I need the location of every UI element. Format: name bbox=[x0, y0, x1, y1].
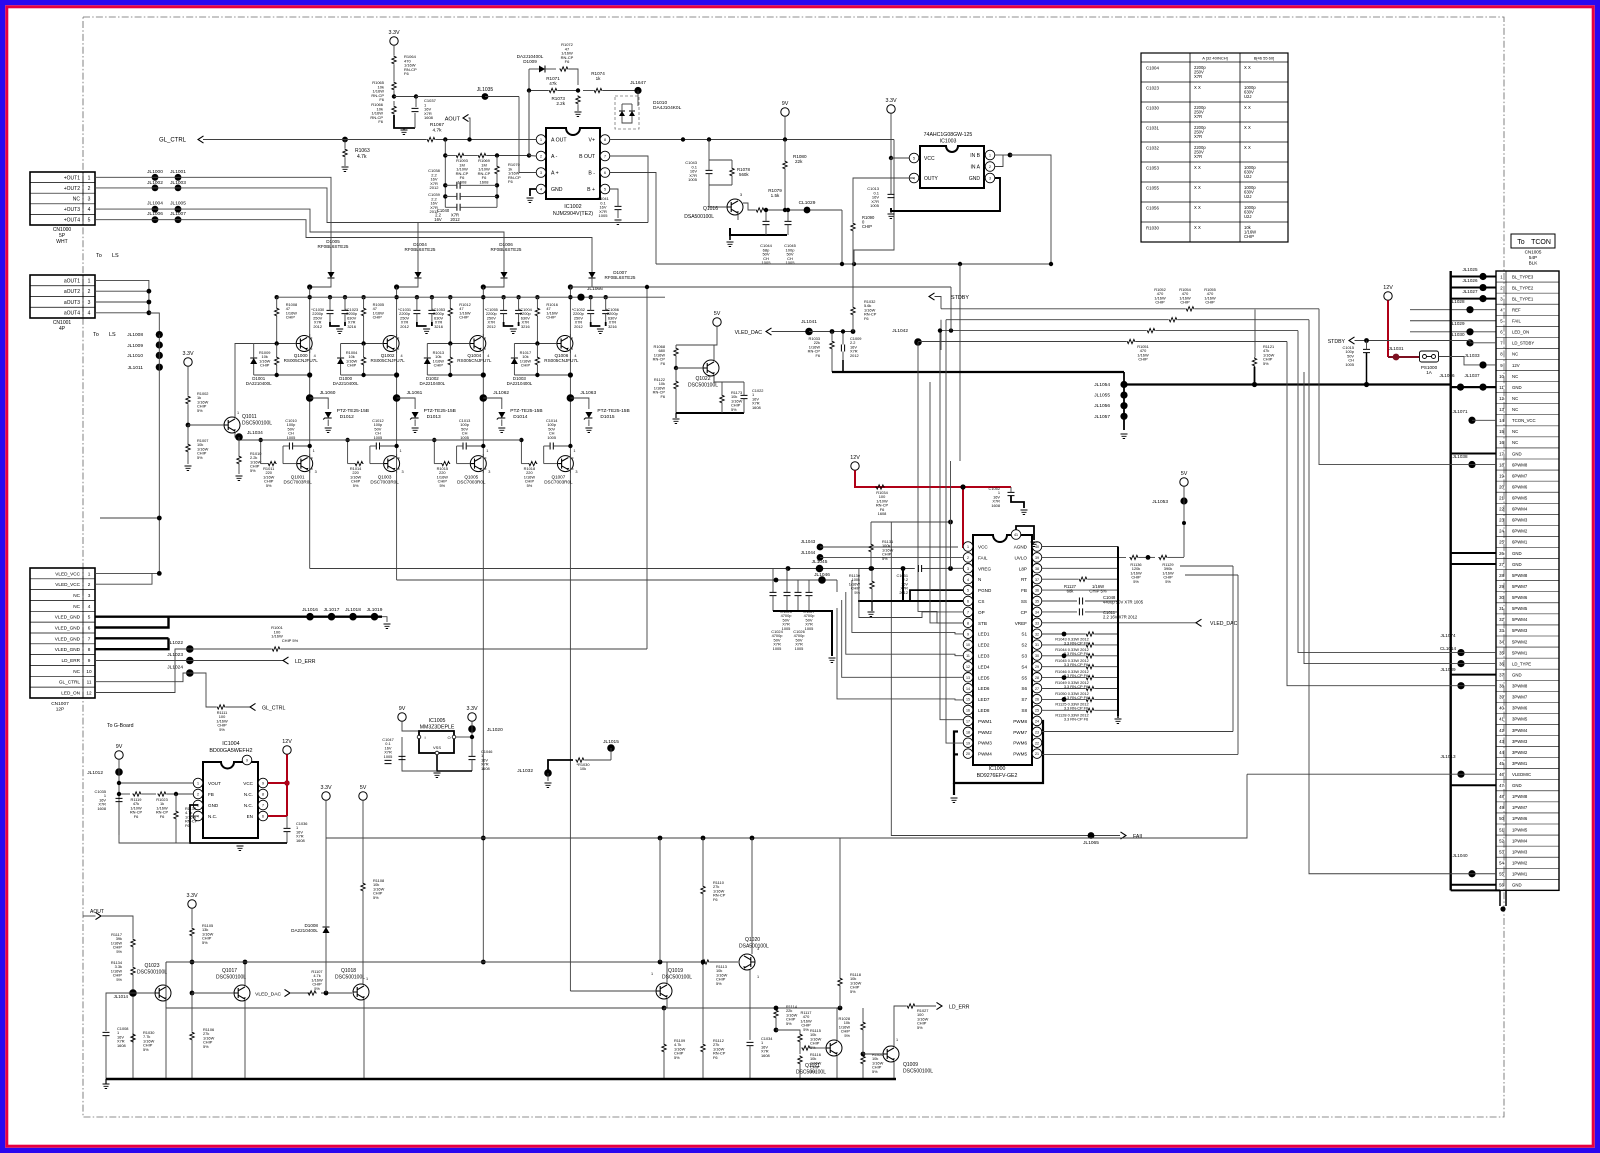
svg-text:IC1000: IC1000 bbox=[989, 766, 1006, 772]
svg-text:PWM2: PWM2 bbox=[978, 730, 992, 735]
svg-text:74AHC1G08GW-125: 74AHC1G08GW-125 bbox=[924, 132, 973, 138]
svg-text:22k: 22k bbox=[795, 159, 803, 164]
svg-text:36: 36 bbox=[1499, 661, 1504, 666]
wire PWM5 out bbox=[1042, 753, 1238, 755]
red wire 12V fuse bbox=[1387, 300, 1389, 357]
svg-text:6: 6 bbox=[262, 815, 264, 819]
svg-text:5%: 5% bbox=[116, 949, 122, 954]
svg-text:CHIP: CHIP bbox=[347, 363, 357, 368]
svg-text:Q1011: Q1011 bbox=[242, 414, 257, 420]
svg-text:+OUT2: +OUT2 bbox=[64, 186, 80, 192]
svg-text:6PWM7: 6PWM7 bbox=[1512, 473, 1528, 478]
ground loop IC1003 bbox=[891, 178, 1000, 211]
svg-text:2: 2 bbox=[989, 165, 991, 169]
resistor R1117 bbox=[131, 938, 135, 947]
svg-text:CHIP: CHIP bbox=[1180, 300, 1190, 305]
wire SS C1048 bbox=[1042, 600, 1077, 602]
wire JL1046 end bbox=[836, 580, 838, 592]
svg-text:VLED_GND: VLED_GND bbox=[55, 636, 81, 641]
wire L8P bbox=[1042, 567, 1118, 569]
svg-text:NC: NC bbox=[73, 604, 80, 609]
svg-text:GND: GND bbox=[1512, 451, 1522, 456]
wire Q1019 bbox=[659, 838, 661, 962]
svg-text:9: 9 bbox=[246, 759, 248, 763]
svg-text:O: O bbox=[447, 735, 450, 740]
svg-text:5%: 5% bbox=[197, 408, 203, 413]
resistor R1121 bbox=[1252, 357, 1256, 366]
capacitor C1043 bbox=[706, 170, 713, 173]
wire CN1000 pin2 bbox=[95, 188, 418, 268]
wire base bbox=[544, 463, 558, 465]
connector bus bar bbox=[1449, 271, 1451, 890]
resistor R1028 bbox=[861, 1021, 865, 1030]
wire 6PWM8 feeder bbox=[1319, 385, 1496, 465]
wire base bbox=[457, 463, 471, 465]
svg-text:AGND: AGND bbox=[1014, 545, 1028, 550]
svg-text:48: 48 bbox=[1499, 794, 1504, 799]
svg-text:FAIL: FAIL bbox=[1512, 319, 1521, 324]
svg-text:5PWM1: 5PWM1 bbox=[1512, 650, 1528, 655]
wire ch3 box to pin46 bbox=[483, 774, 1247, 838]
svg-text:PTZ-TE25-15B: PTZ-TE25-15B bbox=[510, 408, 542, 414]
svg-text:PTZ-TE25-15B: PTZ-TE25-15B bbox=[424, 408, 456, 414]
capacitor C1053 bbox=[428, 310, 435, 313]
svg-text:38: 38 bbox=[1499, 684, 1504, 689]
wire pair bottom bbox=[341, 374, 397, 376]
svg-text:DA2210400L: DA2210400L bbox=[246, 381, 272, 386]
svg-text:B OUT: B OUT bbox=[579, 154, 596, 160]
svg-text:F6: F6 bbox=[508, 179, 513, 184]
wire STDBY to pin7 bbox=[1388, 341, 1496, 343]
capacitor C1056 bbox=[602, 310, 609, 313]
resistor R1108 bbox=[361, 882, 365, 891]
resistor R1115 bbox=[798, 1033, 802, 1042]
svg-text:To: To bbox=[1517, 239, 1525, 246]
svg-text:NC: NC bbox=[1512, 374, 1518, 379]
svg-text:4: 4 bbox=[913, 177, 915, 181]
svg-text:1005: 1005 bbox=[795, 646, 804, 651]
svg-text:MM3Z3DEPLE: MM3Z3DEPLE bbox=[420, 725, 455, 731]
svg-text:40: 40 bbox=[1035, 545, 1039, 549]
resistor R1030b bbox=[575, 758, 584, 762]
svg-text:54P: 54P bbox=[1529, 255, 1537, 260]
svg-text:CHIP: CHIP bbox=[521, 363, 531, 368]
svg-text:F6: F6 bbox=[864, 316, 869, 321]
svg-text:NC: NC bbox=[1512, 396, 1518, 401]
wire STB vertical bbox=[930, 382, 963, 623]
svg-text:4: 4 bbox=[88, 604, 91, 609]
svg-text:12P: 12P bbox=[56, 707, 65, 713]
svg-text:4: 4 bbox=[574, 354, 576, 358]
svg-text:RS005CNJFU7L: RS005CNJFU7L bbox=[284, 358, 319, 363]
svg-text:7: 7 bbox=[604, 155, 606, 159]
svg-text:7: 7 bbox=[88, 636, 91, 641]
thick gnd bus bbox=[676, 412, 744, 414]
wire CN1000 pin4 bbox=[95, 209, 504, 268]
wire VLED_DAC to R1053 bbox=[831, 332, 833, 341]
svg-text:NC: NC bbox=[73, 669, 80, 674]
connector CN1000 bbox=[30, 172, 95, 225]
svg-text:20: 20 bbox=[966, 752, 970, 756]
svg-text:5%: 5% bbox=[731, 407, 737, 412]
svg-text:CP: CP bbox=[1021, 610, 1027, 615]
svg-text:L8P: L8P bbox=[1019, 566, 1027, 571]
svg-text:CHIP: CHIP bbox=[373, 315, 383, 320]
svg-text:FAIL: FAIL bbox=[1133, 834, 1144, 840]
svg-text:6PWM2: 6PWM2 bbox=[1512, 529, 1528, 534]
svg-text:VLED_DAC: VLED_DAC bbox=[735, 330, 763, 336]
wire base net bbox=[254, 343, 297, 345]
svg-text:JL1071: JL1071 bbox=[1452, 409, 1468, 414]
svg-text:OUTY: OUTY bbox=[924, 176, 939, 182]
svg-text:30: 30 bbox=[1499, 595, 1504, 600]
svg-text:LD_ERR: LD_ERR bbox=[62, 658, 81, 663]
svg-text:JL1006: JL1006 bbox=[147, 211, 163, 217]
svg-text:Q1017: Q1017 bbox=[222, 968, 237, 974]
svg-text:3: 3 bbox=[488, 470, 490, 474]
resistor R1008 bbox=[275, 307, 279, 316]
svg-text:23: 23 bbox=[1499, 518, 1504, 523]
svg-text:12V: 12V bbox=[282, 739, 292, 745]
svg-text:F6: F6 bbox=[378, 119, 383, 124]
svg-text:40: 40 bbox=[1499, 706, 1504, 711]
svg-text:PWM7: PWM7 bbox=[1013, 730, 1027, 735]
svg-text:BL_TYPE3: BL_TYPE3 bbox=[1512, 274, 1534, 279]
svg-text:PWM5: PWM5 bbox=[1013, 752, 1027, 757]
svg-text:LD_ERR: LD_ERR bbox=[295, 659, 316, 665]
svg-text:1PWM2: 1PWM2 bbox=[1512, 860, 1528, 865]
svg-text:LED7: LED7 bbox=[978, 697, 990, 702]
svg-text:10k: 10k bbox=[580, 766, 586, 771]
wire channel top bus bbox=[568, 295, 572, 299]
svg-text:JL1014: JL1014 bbox=[114, 994, 129, 999]
svg-text:1: 1 bbox=[237, 411, 239, 415]
transistor Q1005 bbox=[470, 456, 486, 472]
svg-text:1: 1 bbox=[573, 449, 575, 453]
svg-text:To: To bbox=[96, 253, 102, 259]
svg-text:2012: 2012 bbox=[574, 324, 583, 329]
power 5V low bbox=[359, 792, 367, 800]
wire OUTY down bbox=[853, 178, 914, 222]
svg-text:AOUT: AOUT bbox=[445, 117, 461, 123]
svg-text:VOUT: VOUT bbox=[208, 781, 221, 786]
wire pin4 stub bbox=[1410, 309, 1496, 311]
svg-text:9V: 9V bbox=[116, 744, 123, 750]
svg-text:39: 39 bbox=[1035, 556, 1039, 560]
svg-text:X X: X X bbox=[1194, 165, 1201, 170]
resistor R1110 bbox=[701, 885, 705, 894]
svg-text:DSC500100L: DSC500100L bbox=[796, 1070, 826, 1076]
transistor Q1020 bbox=[739, 954, 755, 970]
svg-text:3PWM2: 3PWM2 bbox=[1512, 750, 1528, 755]
drive bus wire bbox=[239, 439, 521, 441]
svg-text:NC: NC bbox=[1512, 429, 1518, 434]
svg-text:aOUT1: aOUT1 bbox=[64, 278, 80, 284]
svg-text:S1: S1 bbox=[1021, 632, 1027, 637]
transistor Q1007 bbox=[557, 456, 573, 472]
svg-text:CHIP: CHIP bbox=[286, 315, 296, 320]
svg-text:24: 24 bbox=[1499, 529, 1504, 534]
svg-text:JL1038: JL1038 bbox=[1452, 454, 1468, 459]
red wire 12V bbox=[855, 470, 1011, 487]
svg-text:5%: 5% bbox=[674, 1055, 680, 1060]
ground bbox=[615, 220, 622, 225]
svg-text:CS: CS bbox=[978, 599, 984, 604]
svg-text:1608: 1608 bbox=[97, 806, 106, 811]
svg-text:55: 55 bbox=[1499, 872, 1504, 877]
svg-text:4: 4 bbox=[401, 354, 403, 358]
wire bbox=[204, 139, 346, 141]
wire LED_ON riser bbox=[950, 287, 952, 331]
transistor Q1018 bbox=[353, 984, 369, 1000]
net label GL_CTRL low bbox=[250, 703, 256, 710]
wire B side loop bbox=[610, 156, 648, 223]
box left edge bbox=[165, 962, 167, 1008]
wire bundle line1 bbox=[941, 308, 1185, 310]
svg-text:41: 41 bbox=[1499, 717, 1504, 722]
svg-text:1005: 1005 bbox=[287, 435, 296, 440]
resistor R1114 bbox=[774, 1009, 778, 1018]
svg-text:560k: 560k bbox=[739, 172, 749, 177]
resistor R1016 bbox=[535, 307, 539, 316]
svg-text:DSA500100L: DSA500100L bbox=[739, 944, 769, 950]
svg-text:N: N bbox=[978, 577, 981, 582]
svg-text:3.3V: 3.3V bbox=[885, 98, 896, 104]
svg-text:13: 13 bbox=[1499, 407, 1504, 412]
wire Q1023 collector emitter bbox=[165, 962, 167, 985]
wire channel vertical bbox=[569, 287, 571, 991]
wire channel vertical bbox=[396, 287, 398, 580]
svg-text:GND: GND bbox=[208, 803, 219, 808]
resistor R1011 bbox=[267, 461, 276, 465]
power 3.3V bbox=[390, 37, 398, 45]
svg-text:JL1025: JL1025 bbox=[1462, 267, 1478, 272]
svg-text:FB: FB bbox=[1021, 588, 1027, 593]
svg-text:1: 1 bbox=[88, 571, 91, 576]
ground bbox=[336, 329, 343, 334]
svg-text:5: 5 bbox=[88, 615, 91, 620]
resistor R1007 bbox=[186, 443, 190, 452]
wire channel top bus bbox=[394, 295, 398, 299]
resistor R1063 bbox=[343, 148, 347, 157]
resistor R1026 bbox=[861, 1055, 865, 1064]
svg-text:DSC7003R0L: DSC7003R0L bbox=[370, 480, 399, 485]
net label LD_ERR bbox=[283, 657, 289, 664]
svg-text:CHIP: CHIP bbox=[862, 224, 872, 229]
svg-text:I: I bbox=[424, 735, 425, 740]
svg-text:1608: 1608 bbox=[752, 405, 761, 410]
svg-text:5%: 5% bbox=[716, 981, 722, 986]
svg-text:Q1023: Q1023 bbox=[144, 963, 159, 969]
svg-text:10: 10 bbox=[966, 643, 970, 647]
capacitors C1025 C1027 C1024 C1026 bank bbox=[772, 569, 774, 593]
svg-text:3PWM8: 3PWM8 bbox=[1512, 684, 1528, 689]
svg-text:1PWM4: 1PWM4 bbox=[1512, 838, 1528, 843]
svg-text:1: 1 bbox=[88, 278, 91, 284]
svg-text:FAIL: FAIL bbox=[978, 555, 988, 560]
svg-text:DSC500100L: DSC500100L bbox=[662, 975, 692, 981]
svg-text:51: 51 bbox=[1499, 827, 1504, 832]
power 12V bbox=[851, 462, 859, 470]
svg-text:VREG: VREG bbox=[978, 566, 991, 571]
svg-text:6: 6 bbox=[88, 626, 91, 631]
svg-text:RS005CNJFU7L: RS005CNJFU7L bbox=[544, 358, 579, 363]
svg-text:CN1005: CN1005 bbox=[1525, 250, 1542, 255]
wire LED feedback B bbox=[397, 579, 837, 581]
svg-text:2: 2 bbox=[88, 582, 91, 587]
wire FB bbox=[1042, 589, 1118, 591]
thick gnd wire to pin11 bbox=[1124, 383, 1451, 385]
svg-text:F6: F6 bbox=[134, 814, 139, 819]
op-amp IC1002 bbox=[546, 128, 600, 199]
transistor Q1021 bbox=[826, 1040, 842, 1056]
svg-text:JL1044: JL1044 bbox=[801, 550, 816, 555]
svg-text:5%: 5% bbox=[882, 556, 888, 561]
wire PWM3 feeder bbox=[946, 320, 963, 743]
svg-text:JL1022: JL1022 bbox=[167, 640, 183, 646]
svg-text:28: 28 bbox=[1035, 676, 1039, 680]
svg-text:3PWM5: 3PWM5 bbox=[1512, 717, 1528, 722]
capacitor C1040 bbox=[457, 204, 460, 211]
svg-text:3PWM1: 3PWM1 bbox=[1512, 761, 1528, 766]
svg-text:S3: S3 bbox=[1021, 654, 1027, 659]
capacitor C1039 bbox=[457, 193, 460, 200]
resistor R1136 bbox=[1129, 555, 1138, 559]
svg-text:12V: 12V bbox=[1383, 285, 1393, 291]
wire y1008 right segment bbox=[664, 1007, 840, 1009]
svg-text:10: 10 bbox=[1499, 374, 1504, 379]
wire main y139 bbox=[203, 139, 345, 141]
wire CP C1011 bbox=[1042, 611, 1077, 613]
svg-text:53: 53 bbox=[1499, 849, 1504, 854]
svg-text:5%: 5% bbox=[219, 727, 225, 732]
svg-text:26: 26 bbox=[1035, 698, 1039, 702]
svg-text:CHIP: CHIP bbox=[260, 363, 270, 368]
svg-text:Q1009: Q1009 bbox=[903, 1062, 918, 1068]
resistor R1013 bbox=[448, 356, 452, 365]
svg-text:JL1056: JL1056 bbox=[1094, 403, 1110, 409]
transistor Q1004 bbox=[470, 336, 486, 352]
svg-text:8: 8 bbox=[604, 138, 606, 142]
capacitor C1044 bbox=[763, 221, 770, 224]
wire bbox=[528, 69, 530, 151]
svg-text:1005: 1005 bbox=[782, 626, 791, 631]
svg-text:VLED_DAC: VLED_DAC bbox=[1210, 621, 1238, 627]
ground bbox=[423, 329, 430, 334]
svg-text:35: 35 bbox=[1499, 650, 1504, 655]
svg-text:RS005CNJFU7L: RS005CNJFU7L bbox=[457, 358, 492, 363]
svg-text:27: 27 bbox=[1035, 687, 1039, 691]
capacitor C1046 bbox=[469, 756, 476, 759]
wire loop tops bbox=[1180, 565, 1233, 567]
svg-text:DSC500100L: DSC500100L bbox=[903, 1069, 933, 1075]
svg-text:6PWM3: 6PWM3 bbox=[1512, 518, 1528, 523]
svg-text:F6: F6 bbox=[565, 59, 570, 64]
svg-text:3PWM4: 3PWM4 bbox=[1512, 728, 1528, 733]
wire CN1001 pins bbox=[95, 280, 149, 313]
svg-text:X X: X X bbox=[1244, 125, 1251, 130]
svg-text:aOUT4: aOUT4 bbox=[64, 311, 80, 317]
svg-text:5%: 5% bbox=[872, 1069, 878, 1074]
svg-text:GND: GND bbox=[1512, 385, 1522, 390]
svg-text:VREF: VREF bbox=[1015, 621, 1027, 626]
svg-text:JL1013: JL1013 bbox=[1440, 754, 1456, 759]
wire LED_ON line upper bbox=[570, 286, 951, 288]
svg-text:3PWM7: 3PWM7 bbox=[1512, 695, 1528, 700]
capacitor C1009 bbox=[841, 345, 844, 352]
svg-text:AOUT: AOUT bbox=[90, 909, 104, 915]
svg-text:S7: S7 bbox=[1021, 697, 1027, 702]
wire vss gnd bbox=[437, 755, 472, 771]
wire base bbox=[283, 463, 297, 465]
svg-text:S8: S8 bbox=[1021, 708, 1027, 713]
svg-text:16V: 16V bbox=[434, 217, 442, 222]
capacitor C1052 bbox=[1008, 492, 1015, 495]
resistor R1064 bbox=[392, 55, 396, 64]
svg-text:28: 28 bbox=[1499, 573, 1504, 578]
resistor R1002 bbox=[186, 395, 190, 404]
svg-text:JL1030: JL1030 bbox=[1449, 332, 1465, 337]
power 9V IC1005 bbox=[398, 713, 406, 721]
capacitor C1041 bbox=[615, 206, 622, 209]
transistor Q1009 bbox=[883, 1046, 899, 1062]
svg-text:5V: 5V bbox=[360, 785, 367, 791]
svg-text:+OUT3: +OUT3 bbox=[64, 207, 80, 213]
svg-text:R1030: R1030 bbox=[1146, 226, 1159, 231]
wire CN1000 pin5 bbox=[95, 220, 592, 268]
svg-text:2.2k: 2.2k bbox=[556, 101, 565, 106]
resistor R1004 bbox=[361, 356, 365, 365]
svg-text:D1010: D1010 bbox=[653, 100, 667, 106]
svg-text:1005: 1005 bbox=[374, 435, 383, 440]
svg-text:D1009: D1009 bbox=[523, 59, 537, 64]
svg-text:1608: 1608 bbox=[480, 180, 490, 185]
svg-text:11: 11 bbox=[1499, 385, 1504, 390]
svg-text:31: 31 bbox=[1035, 643, 1039, 647]
svg-text:1005: 1005 bbox=[599, 213, 609, 218]
wire bundle line4 bbox=[918, 341, 1126, 343]
svg-text:45: 45 bbox=[1499, 761, 1504, 766]
svg-text:5V: 5V bbox=[1181, 471, 1188, 477]
svg-text:31: 31 bbox=[1499, 606, 1504, 611]
svg-text:JL1011: JL1011 bbox=[128, 365, 144, 371]
svg-text:4400p 50V X7R 1005: 4400p 50V X7R 1005 bbox=[1103, 600, 1144, 605]
resistor R1078 bbox=[730, 167, 734, 176]
svg-text:5%: 5% bbox=[854, 590, 860, 595]
svg-text:12: 12 bbox=[1499, 396, 1504, 401]
resistor R1053 bbox=[830, 340, 834, 349]
resistor R1030c bbox=[131, 1033, 135, 1042]
thick wire STBY gnd run bbox=[832, 371, 1124, 373]
svg-text:CHIP: CHIP bbox=[546, 315, 556, 320]
svg-text:VLED_VCC: VLED_VCC bbox=[55, 582, 80, 587]
wire LED3 sense bbox=[846, 592, 963, 656]
svg-text:REF: REF bbox=[1512, 307, 1521, 312]
svg-text:X X: X X bbox=[1244, 145, 1251, 150]
capacitor C1011 bbox=[1079, 608, 1082, 615]
svg-text:STB: STB bbox=[978, 621, 987, 626]
svg-text:1PWM5: 1PWM5 bbox=[1512, 827, 1528, 832]
svg-text:5: 5 bbox=[913, 157, 915, 161]
svg-text:3PWM6: 3PWM6 bbox=[1512, 706, 1528, 711]
wire base net bbox=[427, 343, 470, 345]
svg-text:Q1020: Q1020 bbox=[745, 937, 760, 943]
svg-text:21: 21 bbox=[1499, 496, 1504, 501]
transistor Q1001 bbox=[297, 456, 313, 472]
svg-text:2012: 2012 bbox=[450, 217, 460, 222]
svg-text:JL1024: JL1024 bbox=[167, 665, 183, 671]
resistor R1070 bbox=[495, 165, 499, 174]
